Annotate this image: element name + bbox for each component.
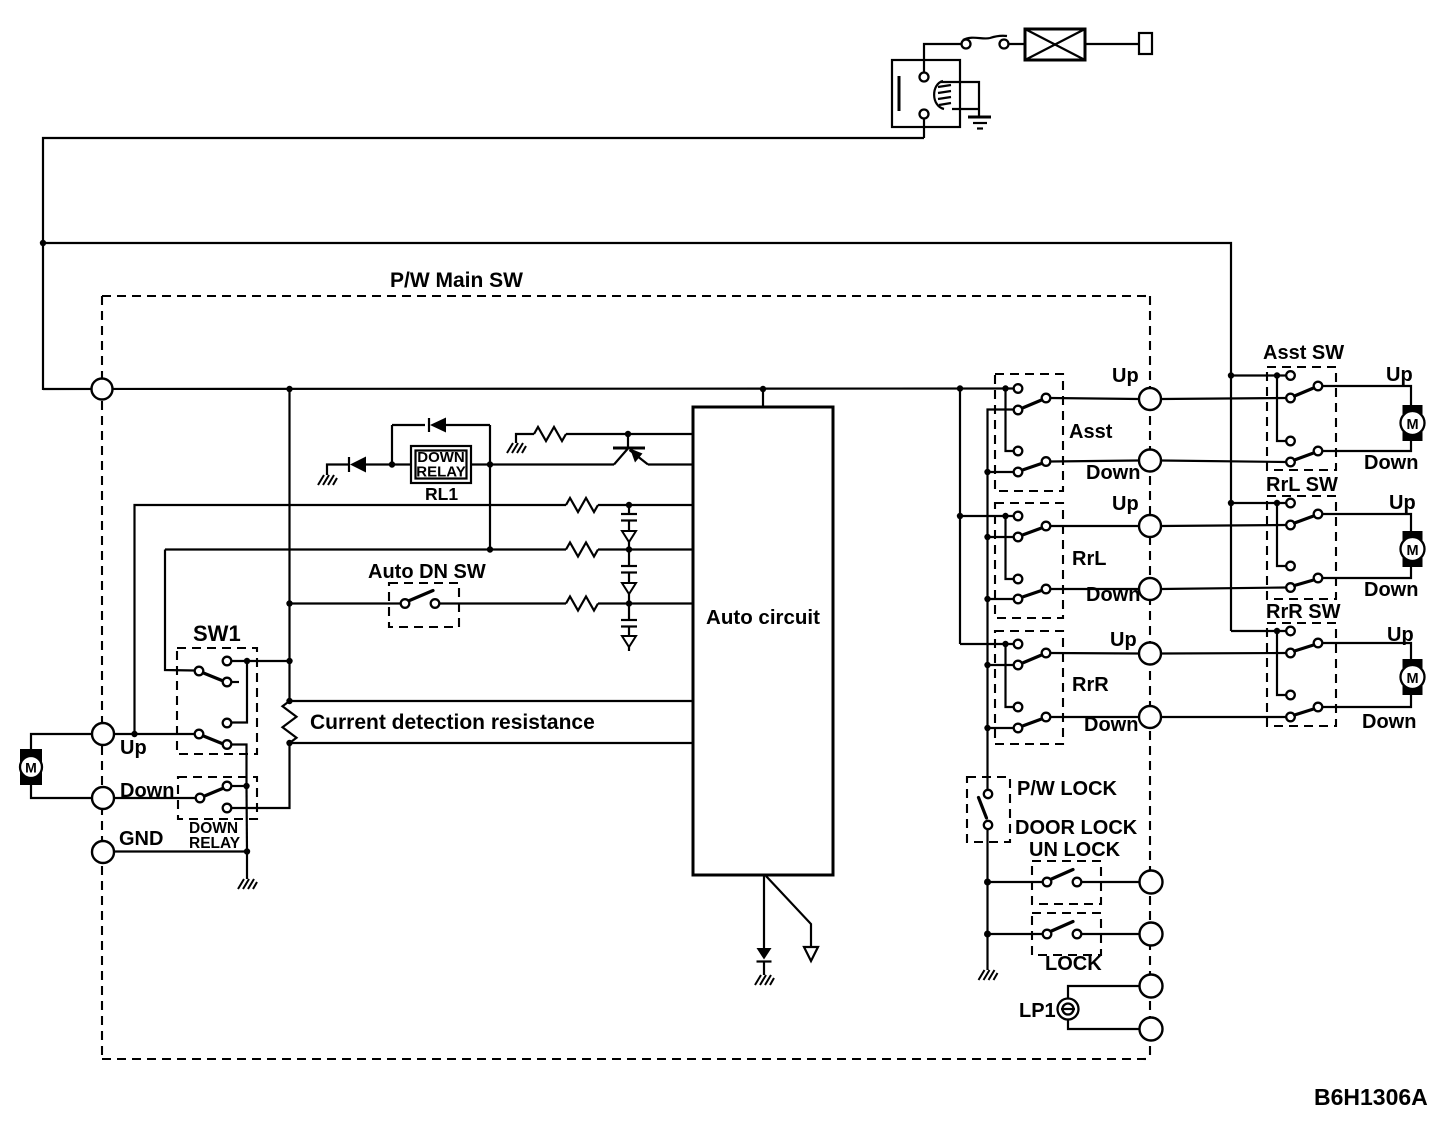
wire down to GND row [245,786,248,852]
wire Asst up to connector [1051,398,1140,399]
connector circle GND [92,841,114,863]
svg-text:RELAY: RELAY [416,464,465,481]
node junction on supply vertical [1228,500,1234,506]
switch RrR up [1014,640,1051,670]
node junction main feed [286,386,292,392]
node junction unlock row [984,879,991,886]
wire relay pin1 to ignition switch [924,44,961,73]
svg-text:Auto circuit: Auto circuit [706,606,820,629]
wire branch to SW1 upper contact [165,550,195,671]
wire lamp top to connector [1068,986,1140,999]
motor M driver door [20,749,42,785]
wire RrR Down connector to RrR SW [1161,716,1286,718]
wire motor to RrR SW down [1323,694,1412,707]
RrR dashed box [995,631,1063,744]
wire feed to auto circuit [762,389,764,407]
node junction feed branch [1274,372,1280,378]
wire motor to Asst SW down [1323,440,1412,451]
wire RrR feed row [960,643,1014,645]
node junction [984,662,990,668]
svg-text:Up: Up [1386,364,1413,386]
connector circle lamp bottom [1140,1018,1163,1041]
node junction [626,600,632,606]
capacitor C3 [621,604,637,637]
svg-text:Asst: Asst [1069,421,1113,443]
wire switch to fuse [1009,43,1026,45]
SW1 middle switch [195,719,232,749]
wire ground to resistor [516,434,534,443]
wire RrL feed branch [1006,516,1014,579]
wire top supply bus [43,138,924,390]
wire Asst Up connector to Asst SW [1161,398,1286,399]
wire ground stub [988,471,1014,473]
svg-text:B6H1306A: B6H1306A [1314,1084,1428,1110]
wire lock row [988,933,1043,935]
svg-text:LOCK: LOCK [1045,953,1102,975]
switch Asst up [1014,384,1051,414]
wire row 4 from SW1 branch [165,548,566,550]
svg-text:Current detection resistance: Current detection resistance [310,711,595,734]
resistor R5 current detection resistance [283,701,297,743]
wire RrL feed row [960,515,1014,517]
svg-text:Up: Up [1112,365,1139,387]
wire RrL SW feed [1231,502,1286,504]
node junction [984,725,990,731]
ground (auto circuit ground) [755,975,774,985]
motor M rear right [1401,659,1425,695]
wire GND connector to ground [115,850,248,852]
UN LOCK dashed box [1032,861,1101,904]
connector circle Down [92,787,114,809]
capacitor C2 [621,550,637,584]
wire RrR SW to motor up [1323,643,1412,662]
down relay switch [196,782,232,813]
node junction feed branch [1274,628,1280,634]
node junction RrL feed [957,513,963,519]
node junction RL1 output [487,461,493,467]
wire RrL Up connector to RrL SW [1161,525,1286,526]
svg-text:M: M [25,760,37,776]
wire diagonal to arrow output [766,876,811,947]
relay coil [934,81,944,109]
wire bypass vertical [489,425,491,550]
diode D5 (open triangle) [622,636,636,651]
svg-text:M: M [1406,671,1418,687]
svg-text:Up: Up [1110,629,1137,651]
switch RrL up [1014,512,1051,542]
motor M assist door [1401,405,1425,441]
svg-text:LP1: LP1 [1019,1000,1056,1022]
node junction RrR feed branch [1002,641,1008,647]
wire feed branch [1277,503,1286,566]
diode D2 [349,457,412,473]
wire SW1 upper contact to main vertical [232,660,290,662]
wire auto down row [290,602,401,604]
svg-text:Down: Down [1084,714,1138,736]
wire unlock switch to connector [1082,881,1141,883]
node junction [244,658,250,664]
wire GND row to ground [246,852,248,880]
IC auto circuit box [693,407,833,875]
wire RrR feed branch [1006,644,1014,707]
wire current detection upper row [290,700,694,702]
wire resistor to auto circuit [566,433,693,435]
connector circle unlock [1140,871,1163,894]
wire relay pin2 to top bus [923,119,925,139]
switch P/W lock [979,790,993,829]
node junction RrL feed branch [1002,513,1008,519]
wire driver motor to Down connector [31,785,92,798]
wire RrL SW to motor up [1323,514,1412,534]
P/W Main SW dashed enclosure [102,296,1150,1059]
wire lock switch to connector [1082,933,1141,935]
wire ground stub [988,598,1014,600]
svg-text:Down: Down [1362,711,1416,733]
node junction [984,596,990,602]
wire main vertical from feed row [288,389,290,701]
svg-text:DOOR LOCK: DOOR LOCK [1015,817,1138,839]
diode D3 (open triangle) [622,531,636,550]
node junction GND row [244,848,250,854]
resistor R3 [566,543,598,557]
node junction [984,534,990,540]
wire RrL down to connector [1051,588,1140,590]
svg-text:Up: Up [1387,624,1414,646]
node junction lock row [984,931,991,938]
svg-text:Down: Down [1086,584,1140,606]
relay contact bar [898,76,901,111]
node junction feed branch [1274,500,1280,506]
svg-text:RrR: RrR [1072,674,1109,696]
svg-text:P/W LOCK: P/W LOCK [1017,778,1118,800]
node arrow terminal [804,947,818,961]
node junction Asst feed branch [1002,385,1008,391]
switch RrR SW up [1286,627,1322,658]
battery terminal connector [1139,33,1152,54]
connector circle RrR Down [1139,706,1161,728]
wire ground stub [988,664,1014,666]
svg-text:M: M [1406,417,1418,433]
connector circle RrL Down [1139,578,1161,600]
switch RrR SW down [1286,691,1322,722]
resistor R2 [566,498,598,512]
svg-text:RL1: RL1 [425,484,458,504]
relay RL1 box [411,446,471,483]
diode D4 (open triangle) [622,583,636,604]
node junction feed [957,385,963,391]
node junction [760,386,766,392]
wire Up connector to row [115,733,195,735]
svg-text:RrL SW: RrL SW [1266,474,1338,496]
switch RrR down [1014,703,1051,733]
svg-text:RELAY: RELAY [189,835,241,852]
wire resistor to auto circuit [598,548,693,550]
RrL dashed box [995,503,1063,618]
motor M rear left [1401,531,1425,567]
switch RrL SW up [1286,499,1322,530]
svg-text:Up: Up [1112,493,1139,515]
wire Asst down to connector [1051,461,1140,462]
wire feed branch [1277,376,1286,442]
switch Asst SW down [1286,437,1322,467]
wire resistor to auto circuit [598,504,693,506]
RrR SW dashed box [1267,623,1336,726]
resistor R4 [566,597,598,611]
switch Asst SW up [1286,371,1322,402]
svg-text:Down: Down [1364,452,1418,474]
wire ground stub [988,536,1014,538]
node junction [286,698,292,704]
node junction [626,502,632,508]
wire RrR down to connector [1051,716,1140,718]
node junction [626,546,632,552]
wire Asst SW feed [1231,374,1286,376]
connector circle Asst Up [1139,388,1161,410]
node junction gate [625,431,631,437]
wire second supply bus to right switches [43,243,1231,631]
wire down relay upper contact [232,785,247,787]
wire RrR up to connector [1051,652,1140,655]
wire ground stub [988,727,1014,729]
node junction [286,740,292,746]
node junction Up row [131,731,137,737]
wire ground bus [988,410,1014,791]
wire Asst feed branch [1006,389,1014,452]
wire link to middle switch contact [232,661,248,723]
connector circle Asst Down [1139,450,1161,472]
svg-text:GND: GND [119,828,163,850]
wire main feed row [43,387,1013,390]
svg-text:Down: Down [1364,579,1418,601]
wire fuse to battery terminal [1085,43,1139,45]
wire feed vertical to rear switches [959,389,961,645]
connector circle RrL Up [1139,515,1161,537]
wire Asst Down connector to Asst SW [1161,461,1286,463]
wire down relay lower contact to detection resistor [232,743,290,808]
svg-text:Asst SW: Asst SW [1263,342,1344,364]
wire Down connector to down relay contact [115,797,196,799]
svg-text:Up: Up [1389,492,1416,514]
node junction on left vertical [40,240,46,246]
switch door lock [1043,922,1082,939]
diode D1 (bypass) [392,418,490,433]
node junction [984,469,990,475]
svg-text:Up: Up [120,737,147,759]
auto down switch [401,591,440,608]
SW1 dashed box [177,648,257,754]
node junction on row [487,546,493,552]
relay pin 2 [920,110,929,119]
wire RrL up to connector [1051,525,1140,527]
Auto DN SW dashed box [389,583,459,627]
wire unlock row [988,881,1043,883]
diode D6 (output) [757,948,772,975]
svg-text:SW1: SW1 [193,621,241,646]
connector circle lamp top [1140,975,1163,998]
wire coil to ground [941,82,979,116]
wire to bypass diode [391,425,393,465]
wire RL1 to transistor [471,463,614,465]
connector circle RrR Up [1139,643,1161,665]
P/W LOCK dashed box [967,777,1010,842]
SW1 upper switch [195,657,239,687]
svg-text:M: M [1406,543,1418,559]
node junction on main vertical [286,658,292,664]
svg-text:P/W Main SW: P/W Main SW [390,269,523,292]
svg-text:RrR SW: RrR SW [1266,601,1341,623]
relay pin 1 [920,73,929,82]
lamp LP1 [1058,999,1079,1020]
wire ground bus below lock [986,829,988,970]
wire ground to diode [327,465,348,476]
transistor Q1 [613,434,693,465]
svg-text:UN LOCK: UN LOCK [1029,839,1121,861]
Asst SW dashed box [1267,367,1336,470]
capacitor C1 [621,505,637,531]
wire Up branch to auto circuit row [135,505,567,734]
wire motor to RrL SW down [1323,566,1412,578]
wire middle switch to down relay [232,745,247,787]
node junction diode anode [389,461,395,467]
ground (lock section ground) [979,970,998,980]
wire feed branch [1277,631,1286,695]
ground (battery ground, bar style) [968,116,991,119]
LOCK dashed box [1032,913,1101,955]
svg-text:Down: Down [120,780,174,802]
resistor R1 (bias) [534,427,566,441]
svg-text:RrL: RrL [1072,548,1106,570]
wire RrL Down connector to RrL SW [1161,588,1286,590]
svg-text:Down: Down [1086,462,1140,484]
wire resistor to auto circuit [598,602,693,604]
relay (power window relay) [892,60,991,129]
connector circle lock [1140,923,1163,946]
DOWN RELAY dashed box [178,777,257,819]
ignition switch [962,36,1009,49]
node junction [243,783,249,789]
switch door unlock [1043,870,1082,887]
wire auto circuit to output diode [763,875,765,948]
Asst dashed box [995,374,1063,491]
ground (RL1 coil ground) [318,475,337,485]
wire current detection lower row [290,742,694,744]
wire Up connector to driver motor [31,734,92,749]
switch RrL down [1014,575,1051,604]
wire RrR SW feed [1231,630,1286,632]
ground (bias resistor ground) [507,443,526,453]
node junction on main vertical [286,600,292,606]
wire lamp bottom to connector [1068,1020,1140,1030]
RrL SW dashed box [1267,496,1336,599]
fuse (fusible link) [1025,29,1085,60]
wire Asst SW to motor up [1323,386,1412,408]
connector circle Up [92,723,114,745]
switch RrL SW down [1286,562,1322,592]
svg-text:Auto DN SW: Auto DN SW [368,561,486,583]
connector circle main supply [92,379,113,400]
wire RrR Up connector to RrR SW [1161,652,1286,655]
node junction on supply vertical [1228,372,1234,378]
wire switch to resistor [440,602,567,604]
ground (main switch ground) [238,879,257,889]
switch Asst down [1014,447,1051,477]
